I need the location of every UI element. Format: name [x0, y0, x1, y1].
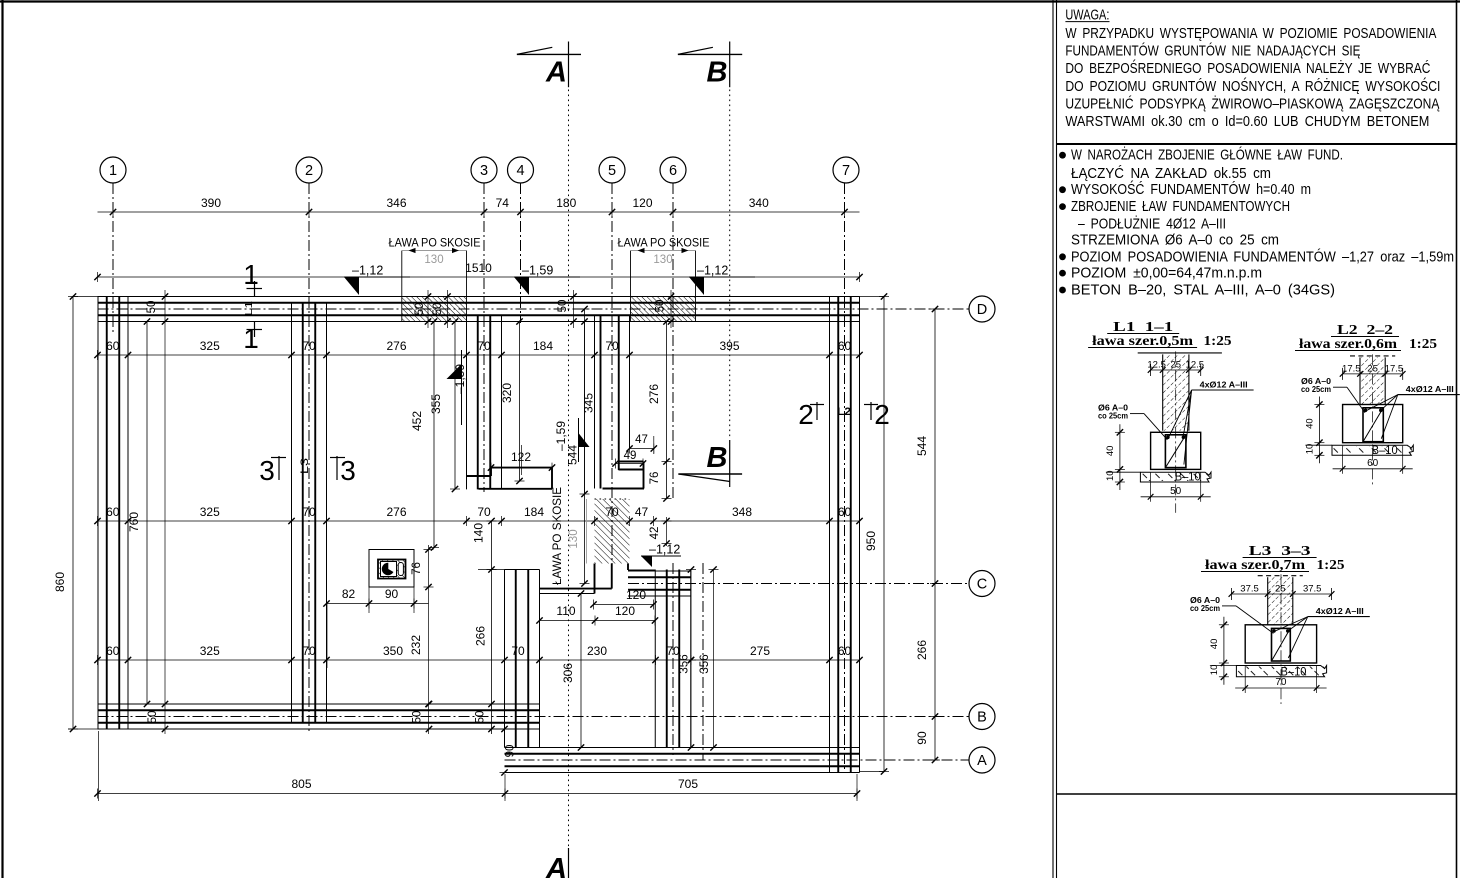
- svg-text:DO BEZPOŚREDNIEGO POSADOWIENIA: DO BEZPOŚREDNIEGO POSADOWIENIA NALEŻY JE…: [1065, 59, 1430, 77]
- svg-text:4xØ12 A–III: 4xØ12 A–III: [1200, 380, 1248, 390]
- dimension 345: [584, 322, 586, 495]
- panel right border: [1456, 0, 1458, 878]
- dimension 320 stairwell: [519, 322, 521, 482]
- detail L2 height dims 40 10: [1318, 397, 1320, 464]
- svg-text:L2: L2: [837, 406, 851, 418]
- grid circle B: [969, 704, 995, 730]
- svg-text:356: 356: [699, 654, 711, 673]
- svg-text:306: 306: [561, 663, 575, 683]
- interior wall along 2: [291, 303, 293, 723]
- svg-text:ZBROJENIE ŁAW FUNDAMENTOWYCH: ZBROJENIE ŁAW FUNDAMENTOWYCH: [1071, 199, 1290, 215]
- svg-text:90: 90: [385, 587, 399, 601]
- detail L1 stirrup: [1165, 435, 1186, 468]
- stair well bottom return: [491, 467, 552, 469]
- svg-text:70: 70: [302, 644, 316, 658]
- svg-text:DO POZIOMU GRUNTÓW NOŚNYCH, A: DO POZIOMU GRUNTÓW NOŚNYCH, A RÓŻNICĘ WY…: [1065, 77, 1440, 95]
- svg-text:–1,59: –1,59: [522, 264, 553, 278]
- svg-text:ŁAWA PO SKOSIE: ŁAWA PO SKOSIE: [552, 487, 564, 585]
- dimension 76 at step: [663, 495, 669, 501]
- svg-text:40: 40: [1209, 639, 1220, 650]
- svg-text:B: B: [707, 57, 728, 89]
- dimension 860 left: [72, 297, 74, 730]
- grid line 3 vertical: [483, 183, 485, 492]
- svg-text:ława szer.0,5m: ława szer.0,5m: [1092, 334, 1193, 349]
- grid line 1 vertical: [112, 183, 114, 334]
- level marker -1,12 lower middle: [641, 555, 681, 557]
- svg-text:82: 82: [342, 587, 356, 601]
- svg-text:– PODŁUŻNIE 4Ø12 A–III: – PODŁUŻNIE 4Ø12 A–III: [1078, 215, 1226, 233]
- grid circle 2: [296, 157, 322, 183]
- detail L2 leader extension: [1398, 394, 1457, 396]
- grid line C horizontal: [628, 583, 969, 585]
- level marker -1,59 at section A: [578, 418, 580, 462]
- grid circle C: [969, 571, 995, 597]
- svg-text:B–10: B–10: [1175, 472, 1201, 484]
- detail L1 bottom width dim: [1141, 496, 1211, 498]
- mini dim 90 extension: [501, 726, 507, 732]
- detail L3 rebar leader 4x12: [1308, 616, 1370, 618]
- grid line B horizontal: [98, 716, 970, 718]
- detail L2 rebar leader 4x12: [1398, 394, 1460, 396]
- svg-text:452: 452: [410, 411, 424, 431]
- svg-text:346: 346: [386, 196, 406, 210]
- dimension 49 step: [616, 463, 644, 465]
- svg-text:4xØ12 A–III: 4xØ12 A–III: [1316, 606, 1364, 616]
- dimension 120 upper: [594, 604, 654, 606]
- dimension row at 660: [98, 659, 860, 661]
- svg-text:350: 350: [383, 644, 403, 658]
- panel divider under UWAGA: [1057, 143, 1457, 145]
- dimension 140: [491, 521, 493, 734]
- level marker -1,12 left: [344, 276, 410, 278]
- svg-text:230: 230: [587, 644, 607, 658]
- svg-text:49: 49: [624, 450, 637, 462]
- cut mark 1-1 top: [247, 288, 263, 290]
- svg-text:47: 47: [635, 505, 649, 519]
- svg-text:50: 50: [146, 301, 158, 314]
- dimension 1510 overall: [98, 276, 860, 278]
- left wall along 1: [97, 297, 99, 730]
- svg-text:544: 544: [915, 436, 929, 456]
- svg-text:1510: 1510: [465, 261, 492, 275]
- svg-text:47: 47: [635, 434, 648, 446]
- svg-text:10: 10: [1209, 665, 1220, 676]
- svg-text:50: 50: [412, 711, 424, 724]
- svg-text:325: 325: [200, 339, 220, 353]
- svg-text:76: 76: [649, 472, 661, 485]
- svg-text:140: 140: [472, 523, 486, 543]
- svg-text:325: 325: [200, 644, 220, 658]
- svg-text:390: 390: [201, 196, 221, 210]
- svg-text:B–10: B–10: [1372, 445, 1398, 457]
- mini dim 50 bottom wall x492: [488, 701, 494, 707]
- svg-text:A: A: [545, 57, 567, 89]
- level marker -1,12 right: [689, 276, 755, 278]
- detail L2 wall: [1350, 355, 1395, 357]
- svg-text:ŁĄCZYĆ NA ZAKŁAD ok.55 cm: ŁĄCZYĆ NA ZAKŁAD ok.55 cm: [1071, 165, 1271, 182]
- dimension 47 step: [630, 448, 654, 450]
- svg-text:60: 60: [838, 505, 852, 519]
- svg-text:STRZEMIONA Ø6 A–0 co 25 cm: STRZEMIONA Ø6 A–0 co 25 cm: [1071, 233, 1279, 249]
- cut mark 1-1 bottom: [247, 329, 263, 331]
- detail L3 width dim: [1231, 593, 1331, 595]
- svg-text:90: 90: [915, 731, 929, 745]
- dimension 122 on return: [488, 464, 494, 470]
- stair wall along 3: [466, 315, 468, 489]
- svg-text:50: 50: [655, 300, 667, 313]
- svg-text:POZIOM POSADOWIENIA FUNDAMENTÓ: POZIOM POSADOWIENIA FUNDAMENTÓW –1,27 or…: [1071, 248, 1454, 265]
- svg-text:D: D: [977, 302, 987, 318]
- grid line 2 vertical: [308, 183, 310, 731]
- top wall along D: [98, 296, 860, 298]
- svg-text:37.5: 37.5: [1303, 584, 1322, 595]
- mini dims 50 on left walls: [164, 290, 166, 734]
- grid circle 5: [599, 157, 625, 183]
- svg-text:L3: L3: [299, 458, 311, 474]
- svg-text:70: 70: [605, 505, 619, 519]
- hatched footing patch 1 on top wall: [402, 297, 467, 321]
- svg-text:7: 7: [842, 163, 850, 179]
- svg-text:WYSOKOŚĆ FUNDAMENTÓW h=0.40 m: WYSOKOŚĆ FUNDAMENTÓW h=0.40 m: [1071, 180, 1311, 198]
- detail L1 footing: [1151, 432, 1201, 469]
- svg-text:1:25: 1:25: [1317, 558, 1345, 573]
- dimension 544 at section A: [584, 309, 586, 584]
- svg-text:37.5: 37.5: [1240, 584, 1259, 595]
- section mark B top: [678, 53, 742, 55]
- dimension 355: [454, 322, 456, 490]
- grid line 4 vertical: [520, 183, 522, 323]
- svg-text:6: 6: [669, 163, 677, 179]
- svg-text:705: 705: [678, 777, 698, 791]
- svg-text:70: 70: [302, 505, 316, 519]
- svg-text:345: 345: [582, 393, 596, 413]
- svg-text:266: 266: [474, 626, 488, 646]
- svg-text:50: 50: [557, 300, 569, 313]
- svg-text:348: 348: [732, 505, 752, 519]
- dimension row grid spacing: [98, 211, 860, 213]
- level marker -1,59 middle: [514, 276, 580, 278]
- detail L3 stirrup: [1272, 628, 1291, 661]
- svg-text:4: 4: [516, 163, 524, 179]
- dimension 232: [425, 701, 431, 707]
- section line B-B: [729, 90, 731, 439]
- svg-text:70: 70: [302, 339, 316, 353]
- svg-text:ława szer.0,6m: ława szer.0,6m: [1299, 337, 1397, 352]
- detail L1 height dims 40 10: [1119, 424, 1121, 490]
- svg-text:320: 320: [500, 383, 514, 403]
- svg-text:60: 60: [838, 644, 852, 658]
- svg-text:2: 2: [798, 399, 814, 430]
- dimension row at 355: [98, 354, 860, 356]
- svg-text:184: 184: [533, 339, 553, 353]
- svg-text:760: 760: [127, 512, 141, 532]
- svg-text:60: 60: [106, 339, 120, 353]
- svg-text:120: 120: [615, 604, 635, 618]
- detail L2 lean concrete B-10: [1332, 445, 1413, 455]
- mini dim 50 top wall x671: [670, 290, 672, 328]
- grid circle 7: [833, 157, 859, 183]
- dimension 950 right: [883, 297, 885, 772]
- auxiliary centerline x703: [702, 563, 704, 760]
- svg-text:5: 5: [608, 163, 616, 179]
- svg-text:275: 275: [750, 644, 770, 658]
- dimension 76 chimney: [428, 545, 430, 734]
- svg-text:120: 120: [626, 588, 646, 602]
- hatched sloped footing patch on grid 5: [595, 499, 630, 564]
- dimension 276 upper right room: [666, 322, 668, 499]
- patch 3 gray dim 130: [586, 499, 588, 564]
- svg-text:L3 3–3: L3 3–3: [1249, 544, 1311, 559]
- svg-text:340: 340: [749, 196, 769, 210]
- svg-text:395: 395: [719, 339, 739, 353]
- section line A-A: [568, 90, 570, 848]
- svg-text:ława szer.0,7m: ława szer.0,7m: [1205, 558, 1305, 573]
- dimension row 110 120: [540, 620, 656, 622]
- detail L2 bottom width dim: [1333, 468, 1413, 470]
- svg-text:232: 232: [409, 635, 423, 655]
- svg-text:3: 3: [340, 455, 356, 486]
- svg-text:110: 110: [556, 604, 575, 618]
- svg-text:L1: L1: [243, 301, 255, 316]
- svg-text:W PRZYPADKU WYSTĘPOWANIA W POZ: W PRZYPADKU WYSTĘPOWANIA W POZIOMIE POSA…: [1065, 26, 1436, 42]
- svg-text:325: 325: [200, 505, 220, 519]
- grid line D horizontal: [98, 308, 970, 310]
- notes bullet list: [1059, 152, 1066, 159]
- dimension column right 544 266 90: [934, 309, 936, 760]
- svg-text:17.5: 17.5: [1342, 363, 1361, 374]
- svg-text:–1,12: –1,12: [352, 264, 383, 278]
- svg-text:60: 60: [838, 339, 852, 353]
- dimension row 82 90: [327, 603, 429, 605]
- svg-text:co 25cm: co 25cm: [1098, 411, 1128, 421]
- dimension row 805 705: [98, 793, 858, 795]
- svg-text:12.5: 12.5: [1147, 360, 1166, 371]
- svg-text:50: 50: [475, 711, 487, 724]
- svg-text:76: 76: [411, 562, 423, 575]
- extension left wall x522: [504, 570, 506, 748]
- detail L1 rebar leader 4x12: [1192, 389, 1254, 391]
- svg-text:356: 356: [679, 654, 691, 673]
- svg-text:50: 50: [147, 711, 159, 724]
- svg-text:355: 355: [429, 394, 443, 414]
- right wall along 7: [829, 297, 831, 773]
- svg-text:B: B: [977, 710, 987, 726]
- dimension 306: [580, 594, 582, 748]
- section mark B middle: [729, 440, 731, 487]
- svg-text:ŁAWA PO SKOSIE: ŁAWA PO SKOSIE: [389, 238, 481, 250]
- hatched footing patch 2 on top wall: [631, 297, 696, 321]
- grid line 6 vertical: [672, 183, 674, 500]
- svg-text:70: 70: [477, 339, 491, 353]
- svg-text:C: C: [977, 577, 987, 593]
- dimension 760 left: [146, 322, 148, 705]
- grid line 7 vertical: [844, 183, 846, 773]
- panel divider bottom: [1057, 793, 1457, 795]
- svg-text:50: 50: [414, 303, 426, 316]
- detail L3 height dims 40 10: [1223, 617, 1225, 685]
- svg-text:FUNDAMENTÓW GRUNTÓW NIE NADAJĄ: FUNDAMENTÓW GRUNTÓW NIE NADAJĄCYCH SIĘ: [1065, 43, 1360, 60]
- bottom wall along B: [98, 703, 540, 705]
- svg-text:120: 120: [632, 196, 652, 210]
- svg-text:–1,12: –1,12: [697, 264, 728, 278]
- detail L1 width dim: [1151, 369, 1201, 371]
- svg-text:60: 60: [106, 644, 120, 658]
- level marker -1,59 at stair left: [461, 350, 463, 425]
- svg-text:70: 70: [605, 339, 619, 353]
- grid circle D: [969, 296, 995, 322]
- svg-text:L2 2–2: L2 2–2: [1337, 323, 1393, 338]
- svg-text:74: 74: [496, 196, 510, 210]
- panel left border: [1052, 0, 1054, 878]
- svg-text:A: A: [977, 753, 987, 769]
- grid line A horizontal: [505, 759, 970, 761]
- detail L2 centerline: [1372, 354, 1374, 484]
- svg-text:1:25: 1:25: [1409, 337, 1437, 352]
- svg-text:17.5: 17.5: [1385, 363, 1404, 374]
- svg-text:25: 25: [1275, 584, 1286, 595]
- svg-text:co 25cm: co 25cm: [1301, 384, 1331, 394]
- dimension 452: [433, 322, 435, 548]
- patch 2 gray dim 130: [631, 250, 696, 252]
- svg-text:184: 184: [524, 505, 544, 519]
- svg-text:1: 1: [109, 163, 117, 179]
- mini dim 50 top wall x428: [427, 290, 429, 328]
- svg-text:70: 70: [477, 505, 491, 519]
- stub wall along 6: [654, 570, 656, 748]
- svg-text:544: 544: [566, 445, 580, 465]
- grid circle 6: [660, 157, 686, 183]
- mini dim 50 top wall x447: [447, 290, 449, 328]
- svg-text:130: 130: [424, 254, 443, 266]
- bottom extension wall along A: [505, 747, 860, 749]
- chimney flue symbol: [378, 560, 406, 579]
- svg-text:90: 90: [505, 745, 517, 758]
- mini dim 50 bottom wall x429: [426, 701, 432, 707]
- svg-text:12.5: 12.5: [1186, 360, 1205, 371]
- svg-text:W NAROŻACH ZBOJENIE GŁÓWNE ŁAW: W NAROŻACH ZBOJENIE GŁÓWNE ŁAW FUND.: [1071, 146, 1343, 164]
- detail L3 lean concrete B-10: [1236, 666, 1326, 677]
- grid circle 4: [508, 157, 534, 183]
- grid circle A: [969, 747, 995, 773]
- dimension 356 pair: [690, 570, 692, 748]
- detail L1 wall: [1138, 352, 1222, 354]
- svg-text:950: 950: [864, 531, 878, 551]
- svg-text:276: 276: [386, 339, 406, 353]
- svg-text:130: 130: [653, 254, 672, 266]
- stub wall along C: [628, 570, 691, 572]
- detail L2 width dim: [1343, 373, 1403, 375]
- svg-text:180: 180: [556, 196, 576, 210]
- svg-text:1: 1: [243, 323, 259, 354]
- svg-text:4xØ12 A–III: 4xØ12 A–III: [1406, 384, 1454, 394]
- grid circle 1: [100, 157, 126, 183]
- svg-text:50: 50: [432, 303, 444, 316]
- detail L1 lean concrete B-10: [1140, 472, 1211, 482]
- grid line 5 vertical: [611, 183, 613, 564]
- svg-text:276: 276: [647, 384, 661, 404]
- detail L1 centerline: [1175, 351, 1177, 512]
- jog below slope footing: [594, 564, 596, 594]
- svg-text:BETON B–20, STAL A–III, A–0 (3: BETON B–20, STAL A–III, A–0 (34GS): [1071, 283, 1335, 299]
- svg-text:3: 3: [480, 163, 488, 179]
- detail L3 centerline: [1280, 574, 1282, 704]
- svg-text:860: 860: [53, 572, 67, 592]
- detail L3 bottom width dim: [1235, 687, 1326, 689]
- svg-text:40: 40: [1105, 446, 1116, 457]
- dimension row at 521: [98, 520, 860, 522]
- stair wall along 5: [594, 315, 596, 488]
- svg-text:1:25: 1:25: [1204, 334, 1232, 349]
- svg-text:B: B: [707, 442, 728, 474]
- svg-text:266: 266: [915, 640, 929, 660]
- svg-text:A: A: [545, 853, 567, 878]
- page border frame: [0, 0, 1460, 2]
- detail L2 stirrup: [1363, 408, 1383, 442]
- svg-text:60: 60: [106, 505, 120, 519]
- grid circle 3: [471, 157, 497, 183]
- svg-text:WARSTWAMI ok.30 cm o Id=0.60 L: WARSTWAMI ok.30 cm o Id=0.60 LUB CHUDYM …: [1065, 114, 1429, 130]
- svg-text:805: 805: [291, 777, 311, 791]
- svg-text:POZIOM ±0,00=64,47m.n.p.m: POZIOM ±0,00=64,47m.n.p.m: [1071, 266, 1262, 282]
- svg-text:2: 2: [874, 399, 890, 430]
- svg-text:40: 40: [1304, 418, 1315, 429]
- step wall right of 5: [619, 461, 644, 463]
- svg-text:ŁAWA PO SKOSIE: ŁAWA PO SKOSIE: [618, 238, 710, 250]
- mini dim 50 top wall x573: [573, 290, 575, 328]
- svg-text:2: 2: [305, 163, 313, 179]
- svg-text:3: 3: [259, 455, 275, 486]
- svg-text:70: 70: [511, 644, 525, 658]
- svg-text:276: 276: [386, 505, 406, 519]
- svg-text:42: 42: [649, 527, 661, 540]
- svg-text:UZUPEŁNIĆ PODSYPKĄ ŻWIROWO–PIA: UZUPEŁNIĆ PODSYPKĄ ŻWIROWO–PIASKOWĄ ZAGĘ…: [1065, 94, 1439, 112]
- svg-text:1: 1: [243, 259, 259, 290]
- dimension 42: [666, 517, 668, 546]
- chimney block outline: [369, 550, 414, 588]
- svg-text:L1 1–1: L1 1–1: [1113, 320, 1173, 335]
- svg-text:130: 130: [568, 529, 580, 548]
- detail L3 footing: [1245, 625, 1316, 663]
- svg-text:co 25cm: co 25cm: [1190, 603, 1220, 613]
- section mark A top: [517, 53, 581, 55]
- detail L2 footing: [1343, 405, 1403, 443]
- patch 1 gray dim 130: [402, 250, 467, 252]
- detail L3 wall: [1258, 575, 1303, 577]
